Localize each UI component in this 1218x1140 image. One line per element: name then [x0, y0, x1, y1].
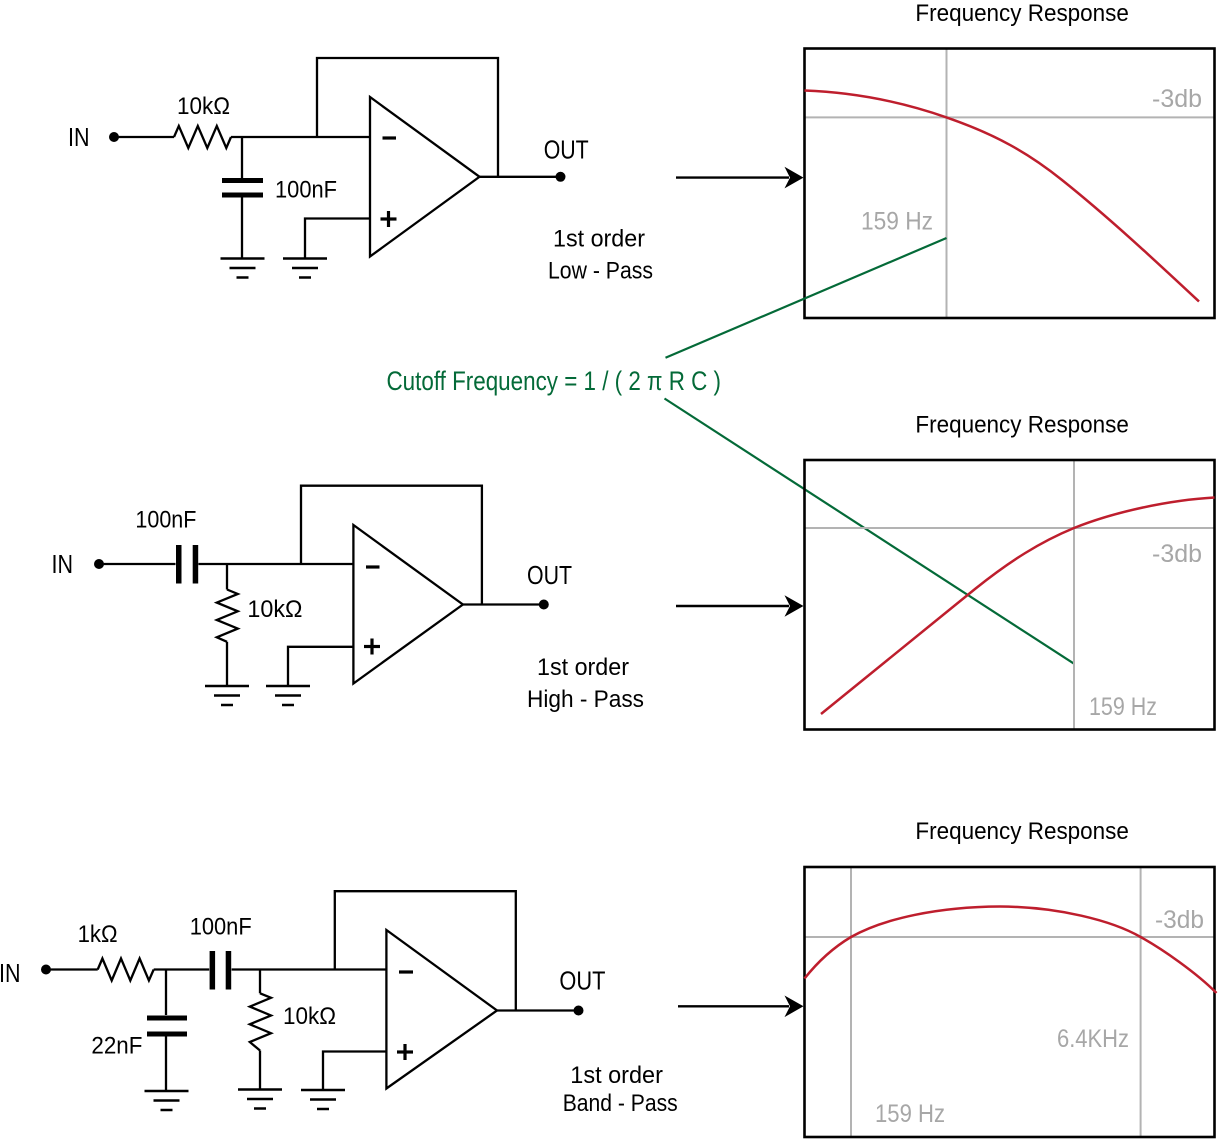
svg-text:IN: IN — [0, 958, 21, 988]
wire U2 output — [463, 603, 539, 605]
wire R2 to ground — [226, 642, 228, 686]
wire non-inverting input to ground — [305, 219, 370, 259]
wire C4 to op-amp inverting input — [232, 968, 387, 970]
op-amp U1 non-inverting pin plus — [381, 217, 397, 220]
svg-text:100nF: 100nF — [190, 914, 252, 941]
ground below non-inverting input circuit2 — [266, 685, 310, 688]
svg-text:1st order: 1st order — [553, 225, 645, 252]
cutoff frequency green annotation — [387, 238, 1075, 664]
op-amp U2 non-inverting pin plus — [364, 645, 380, 648]
capacitor C1 bottom plate — [222, 193, 263, 198]
wire C2 to op-amp inverting input — [198, 563, 353, 565]
arrow to graph1 — [676, 176, 789, 178]
svg-text:100nF: 100nF — [275, 177, 337, 204]
graph1 red response curve — [805, 91, 1200, 302]
ground below C1 — [221, 257, 265, 260]
svg-text:6.4KHz: 6.4KHz — [1057, 1025, 1129, 1053]
node OUT3 dot — [574, 1006, 584, 1016]
graph3 vertical gridline 6.4KHz — [1140, 867, 1142, 1137]
capacitor C2 left plate — [176, 545, 182, 584]
ground below R4 — [238, 1088, 282, 1091]
capacitor C1 top plate — [222, 178, 263, 183]
svg-text:159 Hz: 159 Hz — [861, 208, 933, 236]
op-amp U1 inverting pin minus — [383, 136, 397, 139]
svg-text:OUT: OUT — [559, 966, 605, 996]
ground below C5 — [145, 1090, 189, 1093]
capacitor C2 right plate — [193, 545, 199, 584]
wire C1 to ground — [241, 198, 243, 259]
graph3 box frame — [805, 867, 1215, 1137]
wire U3 output — [497, 1009, 574, 1011]
graph2 red response curve — [821, 498, 1215, 715]
svg-text:IN: IN — [52, 549, 74, 579]
node OUT2 dot — [539, 600, 549, 610]
svg-text:10kΩ: 10kΩ — [177, 93, 230, 120]
node OUT1 dot — [556, 172, 566, 182]
wire U1 output — [480, 176, 557, 178]
svg-text:Frequency Response: Frequency Response — [915, 818, 1129, 845]
wire IN1 to R1 — [119, 136, 174, 138]
resistor R4 10k vertical zigzag — [250, 993, 271, 1050]
svg-text:High - Pass: High - Pass — [527, 686, 644, 713]
arrow to graph3 — [678, 1005, 789, 1007]
capacitor C4 100nF left plate — [210, 951, 216, 990]
green callout line to graph2 — [665, 399, 1075, 664]
op-amp U2 triangle — [353, 525, 463, 684]
node IN3 dot — [41, 965, 51, 975]
wire feedback loop U1 — [317, 58, 498, 177]
svg-text:Low - Pass: Low - Pass — [548, 258, 653, 285]
resistor R2 10k vertical zigzag — [217, 590, 238, 642]
svg-text:159 Hz: 159 Hz — [1089, 693, 1157, 721]
node IN2 dot — [94, 559, 104, 569]
svg-text:Band - Pass: Band - Pass — [563, 1090, 678, 1117]
op-amp U2 inverting pin minus — [366, 565, 380, 568]
svg-text:159 Hz: 159 Hz — [875, 1100, 945, 1128]
svg-text:Cutoff Frequency = 1 / ( 2 π R: Cutoff Frequency = 1 / ( 2 π R C ) — [387, 366, 722, 396]
resistor R3 1k zigzag — [98, 959, 154, 981]
svg-text:-3db: -3db — [1155, 906, 1204, 934]
svg-text:10kΩ: 10kΩ — [247, 596, 302, 623]
svg-text:Frequency Response: Frequency Response — [915, 0, 1129, 27]
arrow to graph2 — [676, 605, 789, 607]
wire IN2 to C2 — [104, 563, 176, 565]
graph3 horizontal gridline -3db — [805, 936, 1215, 938]
graph2 box frame — [805, 460, 1215, 730]
ground below R2 — [205, 685, 249, 688]
graph1 box frame — [805, 49, 1215, 319]
svg-text:22nF: 22nF — [91, 1033, 142, 1060]
ground below non-inverting input — [283, 257, 327, 260]
graph3 red response curve — [805, 907, 1217, 994]
graph2 vertical gridline 159Hz — [1073, 460, 1075, 730]
op-amp U3 triangle — [386, 930, 497, 1089]
wire R3 to C4 — [154, 968, 210, 970]
ground below non-inverting input circuit3 — [301, 1089, 345, 1092]
wire node C down to C5 — [165, 970, 167, 1016]
wire non-inverting input to ground — [323, 1052, 386, 1091]
wire node D down to R4 — [259, 970, 261, 994]
svg-text:OUT: OUT — [527, 560, 572, 590]
wire feedback loop U2 — [301, 486, 482, 605]
node IN1 dot — [109, 132, 119, 142]
green callout line to graph1 — [666, 238, 947, 358]
svg-text:1st order: 1st order — [570, 1062, 663, 1089]
svg-text:OUT: OUT — [544, 135, 589, 165]
graph1 horizontal gridline -3db — [805, 116, 1215, 118]
resistor R1 10k zigzag — [174, 126, 231, 148]
op-amp U3 inverting pin minus — [399, 970, 413, 973]
svg-text:-3db: -3db — [1152, 540, 1202, 568]
op-amp U3 non-inverting pin plus — [397, 1050, 413, 1053]
graph3 vertical gridline 159Hz — [850, 867, 852, 1137]
wire node B down to R2 — [226, 564, 228, 590]
capacitor C5 22nF top plate — [147, 1016, 187, 1021]
wire feedback loop U3 — [335, 891, 516, 1010]
capacitor C5 22nF bottom plate — [147, 1032, 187, 1037]
wire node A down to C1 — [241, 137, 243, 179]
wire IN3 to R3 — [51, 968, 98, 970]
svg-text:IN: IN — [68, 122, 90, 152]
capacitor C4 100nF right plate — [226, 951, 232, 990]
svg-text:Frequency Response: Frequency Response — [915, 411, 1129, 438]
wire non-inverting input to ground — [288, 647, 353, 686]
graph2 horizontal gridline -3db — [805, 527, 1215, 529]
op-amp U1 triangle — [370, 97, 480, 257]
wire R1 to op-amp inverting input — [231, 136, 370, 138]
graph1 vertical gridline 159Hz — [946, 49, 948, 319]
svg-text:100nF: 100nF — [135, 506, 196, 533]
wire C5 to ground — [165, 1037, 167, 1092]
wire R4 to ground — [259, 1051, 261, 1090]
svg-text:10kΩ: 10kΩ — [283, 1003, 336, 1030]
svg-text:1kΩ: 1kΩ — [78, 921, 118, 948]
svg-text:-3db: -3db — [1152, 85, 1202, 113]
svg-text:1st order: 1st order — [537, 654, 629, 681]
